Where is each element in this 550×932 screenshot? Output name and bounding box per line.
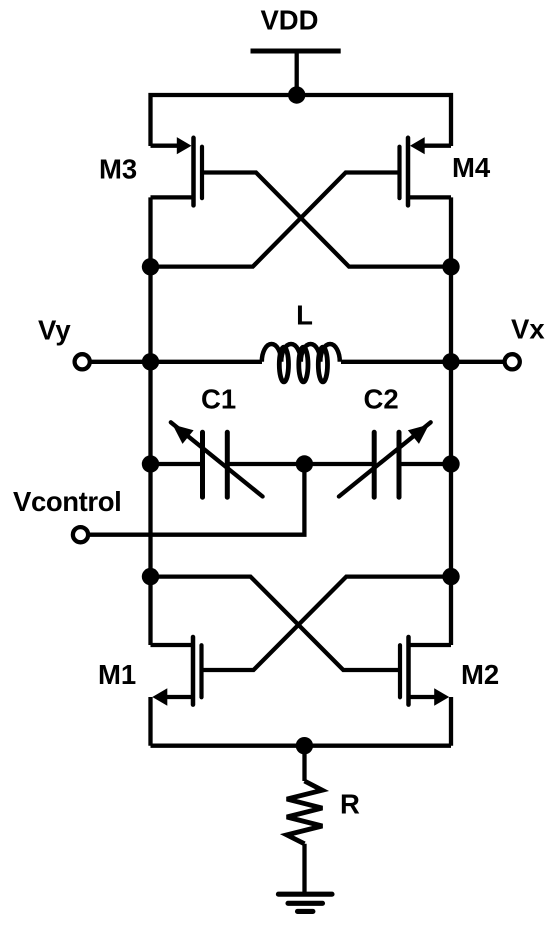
M3 source arrow — [177, 137, 192, 154]
node right lower junction — [442, 568, 459, 585]
terminal Vx — [505, 354, 520, 369]
node left upper junction — [142, 258, 159, 275]
node tail junction — [296, 737, 313, 754]
wire tail to resistor — [302, 746, 306, 781]
transistor M2 — [400, 637, 451, 706]
wire right node to M1 gate (cross-couple) — [204, 577, 452, 670]
M1 channel — [191, 637, 196, 705]
VDD power symbol T-bar — [251, 49, 341, 54]
svg-text:M2: M2 — [461, 659, 499, 690]
node VDD junction — [288, 86, 305, 103]
wire resistor to ground — [302, 844, 306, 894]
wire M3 drain — [151, 195, 194, 199]
wire M3 source — [151, 144, 182, 148]
node left lower junction — [142, 568, 159, 585]
svg-text:R: R — [340, 789, 360, 820]
node right varactor junction — [442, 455, 459, 472]
M2 gate bar — [398, 645, 402, 697]
M4 channel — [406, 138, 411, 206]
resistor R — [287, 781, 323, 844]
terminal Vy — [75, 354, 90, 369]
C2 arrow line — [339, 422, 431, 496]
wire left tail — [148, 697, 152, 746]
wire right tail — [449, 697, 453, 746]
capacitor C1 plate 2 — [225, 432, 230, 497]
capacitor C2 plate 1 — [372, 432, 377, 497]
M4 source arrow — [410, 137, 425, 154]
node center varactor junction — [296, 455, 313, 472]
svg-text:M4: M4 — [452, 152, 491, 183]
wire M4 drain — [408, 195, 451, 199]
wire M4 source — [421, 144, 452, 148]
svg-text:M3: M3 — [99, 154, 137, 185]
node right mid junction — [442, 353, 459, 370]
C2 arrowhead — [408, 425, 429, 444]
terminal Vcontrol — [73, 527, 88, 542]
svg-text:C2: C2 — [364, 384, 399, 415]
wire bottom rail — [151, 744, 452, 748]
transistor M1 — [151, 637, 202, 706]
node left mid junction — [142, 353, 159, 370]
M4 gate bar — [397, 147, 401, 199]
M2 source arrow — [434, 688, 449, 706]
wire M1 drain — [151, 643, 194, 647]
transistor M3 — [151, 137, 203, 205]
svg-text:VDD: VDD — [260, 5, 318, 36]
wire center node to C2 — [304, 462, 372, 466]
M3 gate bar — [200, 147, 204, 199]
transistor M4 — [400, 137, 452, 205]
wire Vcontrol — [88, 464, 305, 535]
C1 arrow line — [171, 422, 263, 496]
svg-text:Vx: Vx — [511, 314, 545, 345]
svg-text:M1: M1 — [98, 659, 136, 690]
wire M3 gate to right node (cross-couple) — [204, 173, 451, 267]
wire C1 to center node — [230, 462, 305, 466]
wire varactor row left — [151, 462, 201, 466]
wire C2 to right rail — [401, 462, 451, 466]
C1 arrowhead — [173, 425, 194, 444]
wire M2 source — [409, 695, 439, 699]
node right upper junction — [442, 258, 459, 275]
inductor L — [262, 344, 340, 382]
wire Vy to inductor — [90, 360, 263, 364]
node left varactor junction — [142, 455, 159, 472]
M3 channel — [191, 138, 196, 206]
wire VDD stem — [295, 51, 299, 95]
wire M2 drain — [409, 643, 452, 647]
M1 source arrow — [152, 688, 167, 706]
M1 gate bar — [199, 645, 203, 697]
svg-text:Vy: Vy — [38, 315, 71, 346]
wire left rail — [148, 197, 152, 645]
wire left node to M2 gate (cross-couple) — [151, 577, 400, 670]
wire inductor to Vx — [341, 360, 505, 364]
capacitor C2 plate 2 — [397, 432, 402, 497]
svg-text:L: L — [296, 300, 313, 331]
capacitor C1 plate 1 — [200, 432, 205, 497]
wire top rail — [151, 95, 452, 146]
wire right rail — [449, 197, 453, 645]
wire M1 source — [163, 695, 193, 699]
svg-text:C1: C1 — [201, 384, 236, 415]
ground — [278, 894, 332, 911]
svg-text:Vcontrol: Vcontrol — [13, 486, 121, 517]
M2 channel — [406, 637, 411, 705]
wire M4 gate to left node (cross-couple) — [151, 173, 398, 267]
